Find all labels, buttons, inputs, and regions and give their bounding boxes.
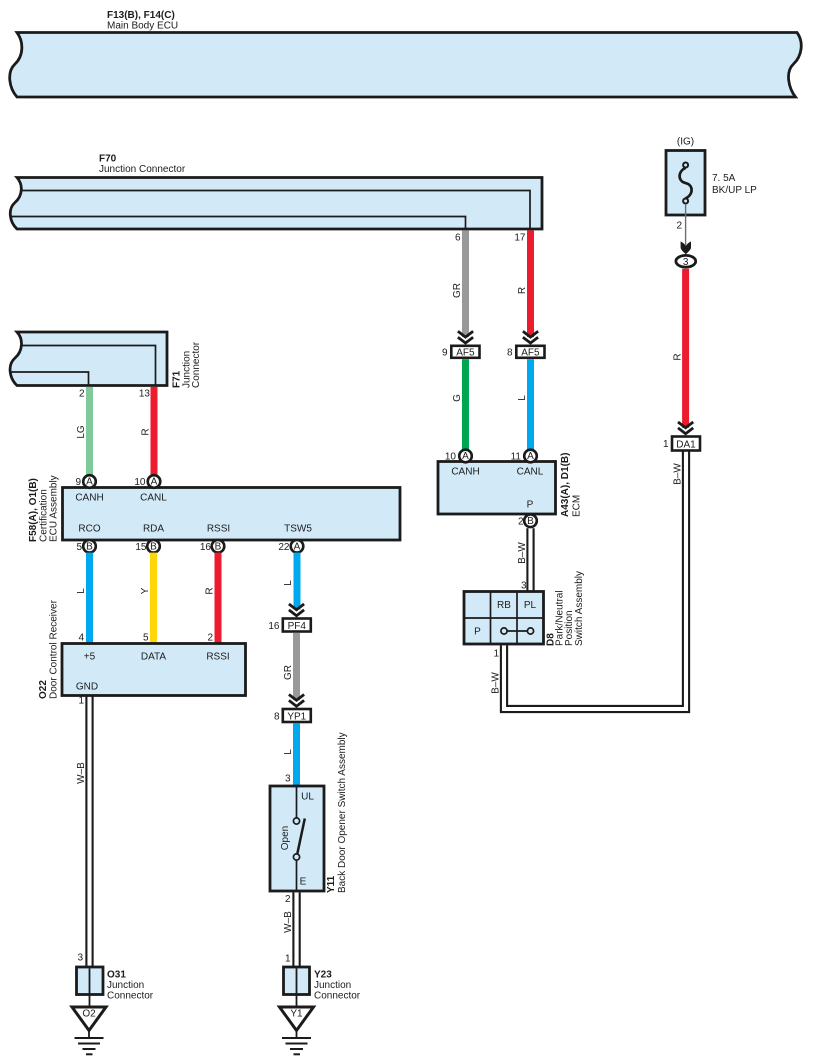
svg-text:RDA: RDA [143,524,164,535]
svg-text:Switch Assembly: Switch Assembly [574,571,585,646]
svg-text:L: L [76,588,87,594]
svg-text:A: A [86,477,93,488]
chevron arrow into YP1 [289,695,304,707]
wire L from YP1 to Y11 pin 3 [283,723,300,786]
wire L from TSW5 to PF4 [283,553,301,610]
svg-text:A: A [462,451,469,462]
svg-text:2: 2 [207,633,213,644]
O22 name label [38,599,60,699]
wire R from RSSI to O22 pin 2 [205,553,222,644]
svg-text:AF5: AF5 [456,347,475,358]
D8 switch contacts [501,628,534,634]
wire B-W from D8 pin 1 to DA1 ground line [491,451,690,712]
ECM A43(A) D1(B) box [438,462,556,515]
fuse 7.5A BK/UP LP label (IG) [677,137,694,148]
svg-text:Y23: Y23 [314,970,332,981]
svg-text:Y1: Y1 [290,1009,303,1020]
svg-text:LG: LG [76,425,87,439]
main body ECU F13(B)/F14(C) box [10,33,802,98]
svg-text:Y: Y [140,587,151,594]
svg-text:B–W: B–W [517,542,528,564]
main body ECU F13(B)/F14(C) label [107,10,178,32]
ground symbol Y1 [282,1030,311,1054]
svg-text:Junction Connector: Junction Connector [99,164,186,175]
svg-text:E: E [300,877,307,888]
svg-text:22: 22 [278,542,290,553]
wire GR from F70 pin 6 [452,230,469,337]
connector AF5 pin 9 [442,346,480,359]
svg-text:B: B [527,516,534,527]
svg-text:F58(A), O1(B): F58(A), O1(B) [28,478,39,542]
fuse element symbol [680,163,692,204]
svg-text:3: 3 [521,581,527,592]
junction connector Y23 box [284,967,310,1007]
svg-text:1: 1 [78,696,84,707]
svg-text:BK/UP LP: BK/UP LP [712,185,757,196]
certification ECU terminal 15 B [135,540,159,553]
svg-text:CANH: CANH [75,493,103,504]
ground triangle O2 [72,1007,106,1031]
svg-text:R: R [673,353,684,360]
connector PF4 pin 16 [268,619,310,632]
svg-text:6: 6 [455,233,461,244]
svg-text:UL: UL [301,792,314,803]
certification ECU assembly box [63,488,401,541]
svg-text:W–B: W–B [283,911,294,933]
svg-text:DA1: DA1 [676,439,696,450]
certification ECU terminal 22 A [278,540,303,553]
svg-text:13: 13 [139,389,151,400]
svg-text:1: 1 [285,954,291,965]
wire GR from PF4 to YP1 [283,633,300,700]
ECM terminal 11 A [511,450,537,463]
wire B-W below DA1 [673,463,684,485]
svg-text:RB: RB [497,600,511,611]
certification ECU name label [28,475,60,542]
park/neutral position switch D8 box [464,592,544,645]
fuse pin 2 wire [676,204,685,247]
svg-text:5: 5 [76,542,82,553]
junction connector F71 box [10,332,167,386]
svg-text:Junction: Junction [107,980,144,991]
F70 internal bus to pin 17 [21,191,530,229]
svg-text:Door Control Receiver: Door Control Receiver [49,599,60,699]
svg-text:CANH: CANH [451,467,479,478]
svg-text:17: 17 [514,233,526,244]
svg-text:AF5: AF5 [521,347,540,358]
svg-text:B–W: B–W [673,463,684,485]
ground triangle Y1 [280,1007,314,1031]
svg-text:R: R [517,287,528,294]
svg-text:O2: O2 [82,1009,96,1020]
wire R from F71 pin 13 [139,387,158,476]
svg-text:2: 2 [285,894,291,905]
svg-text:5: 5 [143,633,149,644]
svg-text:16: 16 [200,542,212,553]
certification ECU terminal 5 B [76,540,95,553]
svg-text:O22: O22 [38,680,49,699]
ECM terminal 2 B [518,515,537,528]
svg-text:RCO: RCO [78,524,100,535]
svg-text:A: A [527,451,534,462]
wire B-W from ECM to D8 pin 3 [517,528,534,591]
svg-text:Junction: Junction [314,980,351,991]
svg-text:B: B [86,542,93,553]
connector YP1 pin 8 [274,709,311,722]
wire L from AF5 to ECM CANL [517,359,534,450]
svg-text:2: 2 [676,221,682,232]
D8 name label [546,571,586,646]
svg-text:GR: GR [452,283,463,298]
certification ECU terminal 9 A [75,475,95,488]
wire G from AF5 to ECM CANH [452,359,469,450]
Y11 name label [326,732,348,893]
svg-text:PL: PL [524,600,537,611]
svg-text:B: B [150,542,157,553]
solid arrow to node 3 [681,241,691,254]
svg-text:11: 11 [511,452,522,463]
svg-text:10: 10 [134,477,146,488]
svg-text:Connector: Connector [107,991,154,1002]
svg-text:3: 3 [285,774,291,785]
svg-text:TSW5: TSW5 [284,524,312,535]
certification ECU terminal 10 A [134,475,160,488]
svg-text:10: 10 [445,452,457,463]
svg-text:L: L [283,749,294,755]
svg-text:B: B [215,542,222,553]
connector DA1 pin 1 [663,437,700,451]
chevron arrow into PF4 [289,604,304,616]
svg-text:15: 15 [135,542,147,553]
door control receiver O22 box [62,644,246,696]
svg-text:RSSI: RSSI [206,652,229,663]
svg-text:B–W: B–W [491,672,502,694]
svg-text:RSSI: RSSI [207,524,230,535]
svg-text:Back Door Opener Switch Assemb: Back Door Opener Switch Assembly [337,732,348,893]
svg-text:CANL: CANL [517,467,544,478]
svg-text:R: R [205,587,216,594]
svg-text:A: A [294,542,301,553]
back door opener switch Y11 box [270,786,324,891]
wire R from node 3 to DA1 [673,269,690,428]
svg-text:9: 9 [442,347,448,358]
F70 internal bus to pin 6 [11,217,466,229]
svg-text:A43(A), D1(B): A43(A), D1(B) [560,453,571,517]
ECM terminal 10 A [445,450,472,463]
svg-text:3: 3 [77,953,83,964]
svg-text:ECM: ECM [572,495,583,517]
svg-text:GR: GR [283,665,294,680]
svg-text:ECU Assembly: ECU Assembly [49,475,60,542]
junction connector O31 box [77,967,104,1007]
svg-text:2: 2 [79,389,85,400]
wire L from RCO to O22 pin 4 [76,553,93,644]
chevron arrow into DA1 [678,422,693,434]
svg-text:8: 8 [507,347,513,358]
ground symbol O2 [75,1030,104,1054]
chevron arrow into AF5 pin 9 [458,331,473,343]
F71 name label [172,341,203,388]
svg-text:F70: F70 [99,154,117,165]
junction connector F70 box [10,178,542,230]
svg-text:4: 4 [78,633,84,644]
Y11 switch contacts [293,786,304,891]
svg-text:Open: Open [280,826,291,850]
Y23 name label [314,970,361,1002]
wire Y from RDA to O22 pin 5 [140,553,157,644]
svg-text:P: P [527,500,534,511]
svg-text:R: R [141,428,152,435]
wire LG from F71 pin 2 [76,387,93,476]
svg-text:PF4: PF4 [288,621,307,632]
svg-text:+5: +5 [84,652,96,663]
fuse rating label [712,173,757,196]
chevron arrow into AF5 pin 8 [523,331,538,343]
svg-text:DATA: DATA [141,652,167,663]
fuse box [666,151,705,216]
svg-text:Connector: Connector [314,991,361,1002]
svg-text:7. 5A: 7. 5A [712,173,736,184]
svg-text:Main Body ECU: Main Body ECU [107,21,178,32]
O31 name label [107,970,154,1002]
svg-text:G: G [452,394,463,402]
junction connector F70 label [99,154,186,176]
svg-text:P: P [474,627,481,638]
svg-text:F13(B), F14(C): F13(B), F14(C) [107,10,175,21]
svg-text:3: 3 [683,257,689,268]
svg-text:O31: O31 [107,970,126,981]
svg-text:CANL: CANL [140,493,167,504]
F71 internal bus to pin 13 [21,346,156,385]
svg-text:1: 1 [493,649,499,660]
svg-text:L: L [517,395,528,401]
svg-text:1: 1 [663,439,669,450]
node 3 ellipse [676,255,696,268]
svg-text:16: 16 [268,621,280,632]
F71 internal bus to pin 2 [11,372,89,385]
connector AF5 pin 8 [507,346,545,359]
ECM name label [560,453,583,517]
svg-text:Connector: Connector [191,341,202,388]
wire R from F70 pin 17 [514,230,534,337]
svg-text:YP1: YP1 [287,711,306,722]
svg-text:Y11: Y11 [326,875,337,893]
svg-text:8: 8 [274,711,280,722]
wire W-B from Y11 pin 2 to Y23 [283,892,300,967]
svg-text:9: 9 [75,477,81,488]
wire W-B from O22 GND to O31 [76,696,93,968]
svg-text:A: A [151,477,158,488]
svg-text:GND: GND [76,682,98,693]
certification ECU terminal 16 B [200,540,224,553]
svg-text:W–B: W–B [76,762,87,784]
svg-text:L: L [283,580,294,586]
svg-text:(IG): (IG) [677,137,694,148]
